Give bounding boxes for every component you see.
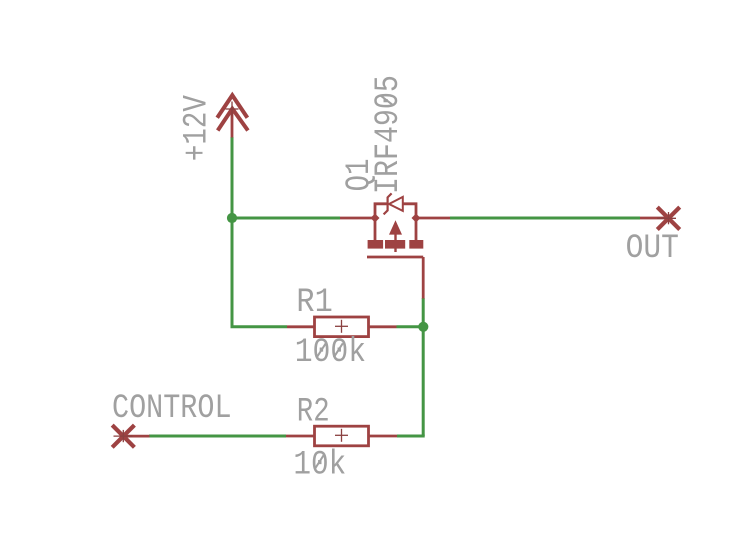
junction dot A (+12V rail): [227, 213, 237, 223]
Q1 stub source to channel: [374, 218, 377, 241]
Q1 body diode cathode bar with hooks: [384, 193, 403, 214]
wire CONTROL to R2 left pin: [149, 435, 286, 438]
svg-text:R2: R2: [297, 393, 330, 432]
wire rail left: junction to Q1 source: [232, 217, 340, 220]
svg-text:10k: 10k: [293, 446, 346, 485]
supply symbol +12V (double chevron arrow): [217, 95, 248, 130]
CONTROL pin cross: [114, 430, 133, 442]
pin Q1 gate (G): [422, 257, 425, 299]
svg-text:100k: 100k: [295, 333, 366, 372]
svg-text:+12V: +12V: [178, 95, 217, 162]
Q1 channel bar left: [368, 240, 384, 249]
CONTROL terminal X: [112, 425, 134, 447]
resistor R1 body: [315, 317, 369, 337]
Q1 channel bar right: [409, 240, 423, 249]
pin R1 right: [369, 325, 397, 328]
R1 origin cross: [335, 320, 348, 333]
OUT pin cross: [657, 212, 676, 224]
pin Q1 source (S): [340, 217, 375, 220]
Q1 stub drain to channel: [415, 218, 418, 241]
junction dot B (gate / R1 / R2 net): [418, 322, 428, 332]
pin cross of +12V symbol: [226, 102, 239, 117]
svg-text:IRF4905: IRF4905: [369, 75, 408, 194]
OUT terminal X: [657, 207, 679, 229]
wire +12V lead (net N$1): [231, 137, 234, 218]
R2 origin cross: [335, 429, 348, 442]
Q1 drain stub and top bracket right: [404, 204, 417, 218]
Q1 pin dot diamond on source: [371, 214, 380, 223]
pin Q1 drain (D): [416, 217, 450, 220]
Q1 gate bar: [367, 256, 423, 259]
Q1 pin dot diamond on drain: [412, 214, 421, 223]
svg-text:CONTROL: CONTROL: [112, 389, 232, 428]
pin of +12V supply symbol: [231, 109, 234, 138]
transistor Q1 IRF4905 (P-MOSFET): [375, 204, 416, 241]
wire rail right: Q1 drain to OUT: [450, 217, 640, 220]
Q1 substrate arrow stem: [394, 234, 396, 252]
wire gate junction up to Q1 gate pin: [422, 298, 425, 327]
wire vertical junction down to R1 row: [231, 218, 234, 327]
svg-text:R1: R1: [296, 283, 332, 322]
pin CONTROL: [123, 435, 149, 438]
wire horizontal to R1 left pin: [231, 325, 288, 328]
Q1 source stub and top bracket left: [375, 204, 387, 218]
label IRF4905 zero slash (rotated): [381, 96, 393, 105]
label 100k zero slash 2: [334, 343, 343, 357]
wire R2 right pin corner: [397, 435, 425, 438]
svg-text:OUT: OUT: [626, 229, 679, 268]
pin R1 left: [287, 325, 315, 328]
label 10k zero slash: [315, 455, 324, 469]
Q1 channel bar middle: [385, 240, 405, 249]
wire gate junction down to R2 row: [422, 327, 425, 436]
slashed-zero overlays (Eagle vector font style): [315, 96, 393, 470]
pin OUT: [640, 217, 669, 220]
resistor R2 body: [315, 426, 369, 446]
wire R1 right pin to gate junction: [397, 325, 424, 328]
pin R2 left: [286, 435, 315, 438]
pin R2 right: [369, 435, 397, 438]
Q1 substrate arrow (filled triangle up): [389, 220, 402, 234]
label 100k zero slash 1: [317, 343, 326, 357]
Q1 body diode triangle: [389, 197, 403, 211]
